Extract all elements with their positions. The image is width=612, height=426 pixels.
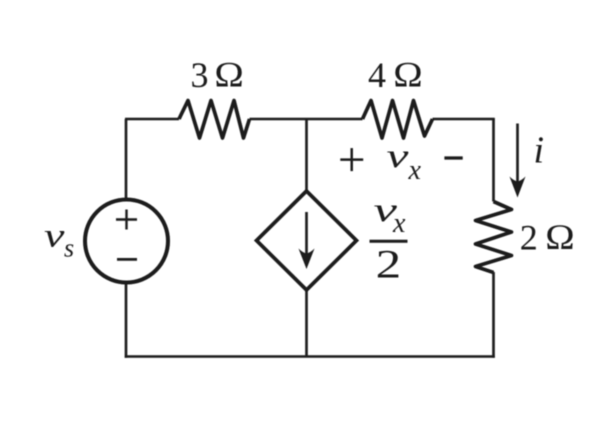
vx sense polarity minus (right of vx label): [444, 156, 462, 159]
wire middle branch lower (diamond to bottom node): [305, 289, 308, 357]
polarity plus of Vs: [116, 210, 137, 230]
svg-text:Ω: Ω: [393, 55, 422, 95]
svg-text:2: 2: [376, 242, 402, 286]
svg-text:x: x: [408, 155, 422, 186]
wire top-left (left node to 3-ohm resistor): [125, 118, 179, 121]
current arrow i (downward, right branch): [510, 124, 526, 198]
resistor R1 3-ohm zigzag: [179, 101, 250, 139]
fraction bar of vx/2 label: [370, 240, 408, 243]
svg-text:v: v: [44, 216, 64, 254]
svg-text:v: v: [387, 137, 409, 175]
wire left branch upper (top wire to Vs): [125, 119, 128, 199]
svg-text:x: x: [392, 208, 406, 239]
svg-text:Ω: Ω: [214, 55, 243, 95]
wire bottom (left node to right node): [125, 355, 495, 358]
wire top-right (4-ohm resistor to right node): [433, 118, 495, 121]
resistor R2 4-ohm zigzag: [363, 101, 433, 139]
label vx (controlled voltage across R2): [387, 137, 422, 186]
svg-text:3: 3: [191, 55, 209, 95]
svg-text:4: 4: [368, 55, 386, 95]
svg-text:2: 2: [520, 217, 538, 257]
wire right branch lower (2-ohm resistor to bottom wire): [492, 272, 495, 358]
svg-text:i: i: [534, 130, 545, 172]
wire right branch upper (top wire to 2-ohm resistor): [492, 119, 495, 202]
label 4 ohm (value of R2): [368, 55, 423, 95]
wire middle branch upper (top node to diamond): [305, 119, 308, 192]
svg-text:s: s: [64, 234, 74, 263]
svg-text:Ω: Ω: [545, 217, 574, 257]
wire left branch lower (Vs to bottom wire): [125, 284, 128, 358]
label 2 ohm (value of R3): [520, 217, 575, 257]
polarity minus of Vs: [117, 258, 137, 261]
label vx/2 (dependent source value, numerator): [374, 190, 407, 239]
wire top-middle (3-ohm resistor to middle node): [250, 118, 363, 121]
label vs (voltage source name): [44, 216, 74, 263]
label 3 ohm (value of R1): [191, 55, 244, 95]
dependent current source diamond: [257, 191, 357, 290]
dependent source arrow (downward): [299, 212, 315, 269]
vx sense polarity plus (left of vx label): [340, 148, 363, 171]
voltage source Vs circle: [85, 200, 168, 283]
resistor R3 2-ohm vertical zigzag: [476, 202, 512, 273]
